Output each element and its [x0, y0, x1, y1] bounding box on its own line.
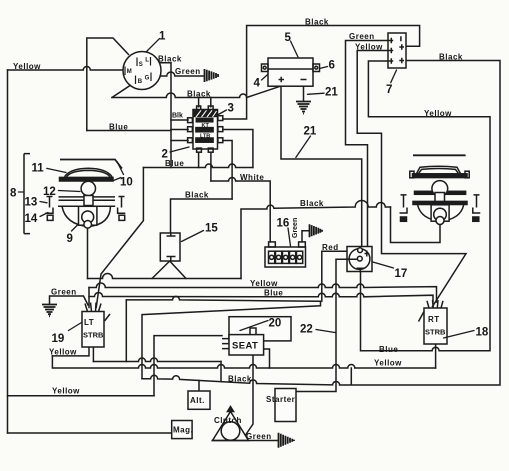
svg-text:Black: Black [305, 18, 329, 27]
svg-text:Black: Black [187, 90, 211, 99]
svg-text:19: 19 [52, 333, 65, 345]
svg-text:21: 21 [304, 126, 317, 138]
svg-text:STRB: STRB [83, 331, 104, 340]
svg-text:Yellow: Yellow [424, 109, 452, 118]
svg-text:13: 13 [25, 197, 38, 209]
svg-text:20: 20 [269, 318, 282, 330]
svg-text:7: 7 [386, 84, 392, 96]
svg-text:Blue: Blue [379, 345, 398, 354]
svg-text:Starter: Starter [266, 395, 295, 404]
svg-text:1: 1 [159, 31, 166, 43]
svg-text:Yellow: Yellow [52, 387, 80, 396]
svg-text:22: 22 [300, 324, 313, 336]
svg-text:White: White [240, 173, 264, 182]
svg-text:Yellow: Yellow [374, 359, 402, 368]
svg-text:9: 9 [67, 233, 73, 245]
svg-text:18: 18 [476, 327, 489, 339]
svg-text:B: B [138, 79, 143, 85]
svg-text:G: G [145, 76, 150, 82]
svg-text:6: 6 [329, 60, 335, 72]
svg-text:Black: Black [228, 375, 252, 384]
svg-text:Mag.: Mag. [173, 426, 193, 435]
svg-text:LT: LT [84, 318, 94, 327]
svg-text:3: 3 [228, 103, 234, 115]
svg-text:Red: Red [322, 243, 339, 252]
svg-text:11: 11 [32, 163, 45, 175]
svg-text:Blue: Blue [264, 289, 283, 298]
svg-text:S: S [139, 62, 143, 68]
svg-text:LTB: LTB [200, 133, 210, 139]
svg-text:4: 4 [254, 78, 261, 90]
svg-text:Black: Black [300, 199, 324, 208]
svg-text:Black: Black [158, 55, 182, 64]
svg-text:17: 17 [395, 268, 408, 280]
svg-text:Clutch: Clutch [214, 416, 242, 425]
svg-text:14: 14 [25, 213, 38, 225]
svg-text:Yellow: Yellow [13, 62, 41, 71]
svg-text:Black: Black [439, 53, 463, 62]
svg-text:Green: Green [292, 218, 299, 238]
svg-text:Green: Green [51, 288, 77, 297]
svg-text:L: L [145, 57, 149, 63]
svg-text:Blk: Blk [172, 113, 183, 120]
svg-text:10: 10 [120, 177, 133, 189]
svg-text:15: 15 [205, 223, 218, 235]
svg-text:Blue: Blue [109, 123, 128, 132]
svg-text:Green: Green [246, 432, 272, 441]
svg-text:SEAT: SEAT [232, 341, 258, 352]
svg-text:KT: KT [202, 123, 210, 129]
svg-text:16: 16 [277, 218, 290, 230]
svg-text:Yellow: Yellow [250, 279, 278, 288]
svg-text:2: 2 [162, 149, 168, 161]
svg-text:8: 8 [10, 188, 17, 200]
svg-text:M: M [127, 69, 132, 75]
svg-text:5: 5 [285, 32, 292, 44]
svg-text:Yellow: Yellow [49, 347, 77, 356]
svg-text:Blue: Blue [165, 159, 184, 168]
svg-text:Green: Green [349, 32, 375, 41]
svg-text:Yellow: Yellow [355, 43, 383, 52]
svg-text:STRB: STRB [425, 328, 446, 337]
svg-text:21: 21 [325, 87, 338, 99]
svg-text:RT: RT [428, 315, 440, 324]
svg-text:Green: Green [175, 67, 201, 76]
svg-text:12: 12 [43, 186, 56, 198]
svg-text:Black: Black [185, 191, 209, 200]
svg-text:Alt.: Alt. [190, 396, 205, 405]
